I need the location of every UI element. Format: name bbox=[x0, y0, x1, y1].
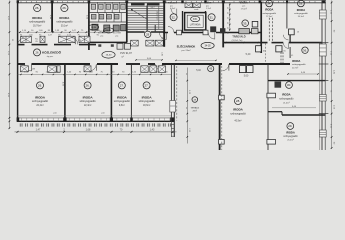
svg-text:1,06: 1,06 bbox=[78, 40, 82, 42]
door arc below wall near room 32 bbox=[159, 33, 166, 40]
dimension chain inside lower offices y=74 bbox=[18, 72, 171, 76]
svg-text:szőnyegpadló: szőnyegpadló bbox=[139, 99, 156, 103]
svg-text:wc: wc bbox=[100, 7, 102, 9]
svg-text:31.: 31. bbox=[210, 15, 214, 19]
svg-text:IRODA: IRODA bbox=[286, 130, 295, 134]
washbasin boxes below corridor wall mid bbox=[141, 66, 166, 73]
svg-text:pvc: pvc bbox=[101, 35, 104, 37]
corridor dim line over courtyard bbox=[175, 60, 216, 61]
wall: rooms divider stepped bbox=[268, 112, 325, 115]
svg-text:IRODA: IRODA bbox=[32, 16, 43, 20]
svg-text:29.: 29. bbox=[288, 124, 292, 128]
svg-text:kéz: kéz bbox=[108, 17, 111, 19]
svg-text:60: 60 bbox=[226, 32, 228, 34]
svg-text:30,76m²: 30,76m² bbox=[33, 24, 42, 27]
svg-text:27.: 27. bbox=[120, 83, 124, 87]
corridor oval 34-35 bbox=[201, 42, 214, 48]
svg-text:26.: 26. bbox=[35, 6, 39, 10]
svg-text:34-35: 34-35 bbox=[205, 45, 212, 47]
wall: lower offices divider x=111 bbox=[110, 65, 112, 119]
floor level note mid office bbox=[101, 112, 105, 114]
svg-text:IRODA: IRODA bbox=[265, 8, 273, 12]
svg-text:28m²: 28m² bbox=[193, 109, 198, 112]
courtyard terrace label bbox=[190, 97, 199, 113]
door swing into office below (x=25..32) bbox=[25, 64, 32, 71]
wall piers along top exterior bbox=[17, 0, 326, 3]
floor level note left office bbox=[53, 112, 57, 114]
svg-text:pvc 24m²: pvc 24m² bbox=[182, 49, 191, 52]
door swing corridor north gap bbox=[18, 38, 25, 45]
dark fixtures bottom of office 35 bbox=[239, 29, 258, 34]
corridor room circle+name KOZLEKEDO bbox=[34, 49, 62, 58]
door swing into right wing room bbox=[223, 64, 229, 70]
svg-text:9,8m²: 9,8m² bbox=[119, 104, 125, 107]
wall: top exterior with window sills bbox=[17, 1, 326, 3]
vertical dim inside office 26a bbox=[86, 15, 88, 20]
svg-text:40,9m²: 40,9m² bbox=[234, 120, 241, 123]
fixtures hanging below corridor south wall bbox=[20, 66, 91, 73]
svg-text:30,1m²: 30,1m² bbox=[61, 24, 68, 27]
wall: stair east bbox=[163, 2, 165, 47]
svg-text:szőnyegpadló: szőnyegpadló bbox=[279, 98, 294, 100]
right vertical dimension chain bbox=[329, 1, 334, 149]
svg-text:szőnyegpadló: szőnyegpadló bbox=[80, 99, 97, 103]
svg-text:5,40: 5,40 bbox=[246, 53, 251, 56]
svg-text:szőnyegpadló: szőnyegpadló bbox=[292, 64, 306, 66]
office 34 label bbox=[262, 0, 276, 18]
svg-text:26-30: 26-30 bbox=[91, 27, 97, 29]
svg-text:60: 60 bbox=[226, 12, 228, 14]
svg-text:5,40: 5,40 bbox=[196, 70, 201, 72]
svg-text:KÖZLEKEDŐ: KÖZLEKEDŐ bbox=[42, 49, 62, 54]
svg-text:65: 65 bbox=[263, 50, 265, 52]
svg-text:szőnyegpadló: szőnyegpadló bbox=[283, 136, 298, 138]
svg-text:26-30: 26-30 bbox=[106, 54, 112, 56]
svg-text:IRODA: IRODA bbox=[35, 95, 46, 99]
stair side dim texts bbox=[161, 37, 163, 56]
office 26a label bbox=[56, 4, 73, 27]
wall: east of sanitary block / stair west bbox=[126, 2, 128, 43]
corridor fixtures below sanitary block bbox=[98, 40, 163, 49]
cabinet/glazing boxes above corridor north wall bbox=[21, 36, 90, 44]
wall: x=223 service shaft west bbox=[222, 2, 224, 47]
office 35 label bbox=[240, 2, 248, 11]
sanitary block WC cells and fixtures bbox=[88, 2, 127, 33]
door swing into left wing room (x=155..162) bbox=[156, 64, 163, 71]
wall: lower offices divider x=131 bbox=[130, 65, 132, 119]
svg-text:IRODA: IRODA bbox=[117, 95, 128, 99]
furniture boxes top of lift lobby bbox=[185, 3, 200, 11]
courtyard door circle 43 bbox=[208, 66, 214, 72]
svg-text:27.: 27. bbox=[145, 83, 149, 87]
svg-text:20,7m²: 20,7m² bbox=[292, 66, 299, 69]
svg-text:21,4m²: 21,4m² bbox=[283, 101, 290, 104]
svg-text:36.: 36. bbox=[303, 48, 307, 52]
office 26 label bbox=[29, 4, 46, 27]
wall: corridor north (right section) bbox=[163, 32, 262, 34]
svg-text:pvc: pvc bbox=[170, 5, 173, 7]
room RAKT label bbox=[205, 2, 212, 11]
left vertical dimension chain bbox=[7, 1, 13, 130]
svg-text:30,1m²: 30,1m² bbox=[298, 15, 305, 18]
dashed partition x=281 bbox=[281, 52, 283, 63]
dim 5.40 room 30 bbox=[272, 106, 316, 108]
svg-text:90: 90 bbox=[161, 37, 163, 39]
corridor dim 5.60 mid bbox=[135, 58, 162, 61]
lower office 27. at x=121.8 bbox=[114, 82, 131, 107]
svg-text:1,85: 1,85 bbox=[161, 52, 163, 56]
svg-text:wc: wc bbox=[107, 7, 109, 9]
wall: x=261 office 35 east bbox=[261, 2, 265, 63]
lower office 27. at x=146.6 bbox=[139, 82, 156, 107]
svg-text:m²: m² bbox=[121, 56, 124, 59]
dashed line east of left wing bbox=[176, 66, 178, 121]
svg-text:21,4m²: 21,4m² bbox=[287, 138, 294, 141]
wall: between offices 26/26a bbox=[51, 2, 53, 32]
KL door boxes into room 28 bbox=[239, 66, 253, 78]
office 35 circle bbox=[242, 20, 249, 27]
svg-text:30.: 30. bbox=[287, 83, 291, 87]
svg-text:22,4m²: 22,4m² bbox=[36, 104, 43, 107]
svg-text:szekr.: szekr. bbox=[194, 8, 199, 11]
KL box office 35 bbox=[252, 21, 258, 31]
svg-text:18,6m²: 18,6m² bbox=[143, 104, 150, 107]
wall junction ticks right exterior bbox=[319, 43, 329, 114]
wall: corridor south spanning building bbox=[17, 63, 290, 65]
door swing into office below (x=90..97) bbox=[90, 64, 97, 71]
wall: left-wing south exterior with windows bbox=[17, 117, 175, 121]
jamb box on wall x=176.5 bbox=[177, 30, 182, 35]
svg-text:szőnyegpadló: szőnyegpadló bbox=[262, 13, 276, 15]
wall: west of sanitary block bbox=[88, 2, 90, 50]
room 30 label bbox=[279, 82, 294, 105]
corridor dim 5.40 right bbox=[246, 53, 251, 56]
KL door box office 33 bbox=[283, 29, 299, 40]
building interior fill bbox=[18, 3, 326, 150]
door arc below wall near room 31 bbox=[208, 33, 215, 40]
svg-text:60: 60 bbox=[226, 7, 228, 9]
vertical dimension strip x=230 bbox=[226, 2, 230, 34]
wall: right-wing west x=219.5 bbox=[219, 65, 221, 151]
courtyard dim 5,40 bbox=[196, 70, 201, 72]
window dimension tick pairs under south wall bbox=[20, 123, 171, 126]
dim 5.40 office 36 bbox=[287, 72, 318, 75]
svg-text:5,60: 5,60 bbox=[244, 76, 249, 78]
svg-text:32.: 32. bbox=[172, 15, 176, 19]
room 29 label bbox=[283, 123, 298, 142]
staircase with steps, landing, walk line bbox=[127, 3, 164, 32]
KL boxes right corridor bbox=[256, 46, 286, 53]
windows on right exterior wall bbox=[319, 10, 326, 137]
svg-text:szőnyegpadló: szőnyegpadló bbox=[294, 13, 308, 15]
second dimension number row y=35 bbox=[20, 34, 100, 36]
svg-text:IRODA: IRODA bbox=[240, 2, 248, 5]
svg-text:2x17: 2x17 bbox=[150, 7, 154, 9]
svg-text:34.: 34. bbox=[267, 1, 271, 5]
room 32 circle bbox=[170, 14, 177, 21]
door arc into office 36 bbox=[284, 43, 289, 48]
door swing corridor north gap 2 bbox=[71, 38, 78, 45]
svg-text:35.: 35. bbox=[243, 21, 247, 25]
lower office 26. at x=87.6 bbox=[80, 82, 97, 107]
svg-text:wc: wc bbox=[122, 7, 124, 9]
dashed movable partition office 34 bbox=[269, 18, 272, 42]
room 28 label bbox=[230, 98, 246, 123]
paper background bbox=[0, 0, 345, 150]
svg-text:29: 29 bbox=[146, 32, 150, 36]
lift shaft LIFTAKNA bbox=[185, 13, 206, 30]
wall: left-wing east side + stair stub below bbox=[170, 65, 176, 138]
svg-text:IRODA: IRODA bbox=[142, 95, 153, 99]
svg-text:1,7m²: 1,7m² bbox=[206, 7, 211, 10]
wall: south of rooms 34/33 and meeting room y=42.6 bbox=[223, 35, 321, 44]
svg-text:TERASZ: TERASZ bbox=[190, 107, 199, 110]
door arc below room 32 bbox=[168, 27, 174, 33]
wall: lift lobby east bbox=[205, 11, 207, 33]
room 31 circle bbox=[208, 14, 215, 21]
dimension chain under top offices bbox=[18, 30, 110, 33]
wall: corridor north (left section) bbox=[17, 44, 96, 46]
svg-text:ELŐTÉR: ELŐTÉR bbox=[113, 32, 122, 35]
svg-text:(24,3x1,7m): (24,3x1,7m) bbox=[232, 40, 243, 42]
svg-text:60: 60 bbox=[226, 27, 228, 29]
svg-text:26.: 26. bbox=[86, 83, 90, 87]
svg-text:1,43: 1,43 bbox=[150, 129, 155, 132]
svg-text:60: 60 bbox=[226, 17, 228, 19]
svg-text:60: 60 bbox=[226, 22, 228, 24]
svg-text:IRODA: IRODA bbox=[292, 59, 300, 63]
svg-text:IRODA: IRODA bbox=[297, 8, 305, 12]
dark door block room 30 west bbox=[275, 82, 282, 88]
courtyard vertical dimension line bbox=[185, 68, 190, 144]
svg-text:TÁRGYALÓ: TÁRGYALÓ bbox=[232, 35, 245, 38]
svg-text:26.: 26. bbox=[62, 6, 66, 10]
svg-text:22,4m²: 22,4m² bbox=[84, 104, 91, 107]
svg-text:wc: wc bbox=[92, 7, 94, 9]
svg-text:XXI.: XXI. bbox=[193, 17, 198, 21]
svg-text:17,5m²: 17,5m² bbox=[241, 8, 248, 11]
svg-text:26.: 26. bbox=[38, 83, 42, 87]
svg-text:szőnyegpadló: szőnyegpadló bbox=[114, 99, 131, 103]
wall: lower offices divider x=65 bbox=[64, 65, 66, 119]
wall: right-wing interior x=268 bbox=[267, 65, 269, 151]
jamb box on wall x=203 bbox=[203, 30, 208, 35]
svg-text:1,68: 1,68 bbox=[86, 129, 91, 132]
svg-text:IRODA: IRODA bbox=[233, 108, 244, 112]
svg-text:szőnyegpadló: szőnyegpadló bbox=[56, 20, 73, 24]
wall: left exterior bbox=[17, 1, 19, 122]
office 36 label bbox=[292, 47, 308, 69]
meeting room TARGYALO bbox=[220, 28, 259, 43]
svg-text:TÁLALÓ: TÁLALÓ bbox=[168, 2, 177, 5]
svg-text:kéz: kéz bbox=[115, 17, 118, 19]
lower office 26. at x=40.0 bbox=[32, 82, 49, 107]
svg-text:IRODA: IRODA bbox=[59, 16, 70, 20]
svg-text:LIFTAKNA: LIFTAKNA bbox=[190, 24, 201, 27]
door arc T.LAKAS bbox=[171, 9, 177, 15]
wall: right exterior double line bbox=[320, 1, 325, 151]
svg-text:18x17/29: 18x17/29 bbox=[156, 10, 158, 20]
svg-text:kéz: kéz bbox=[93, 17, 96, 19]
svg-text:szőnyegpadló: szőnyegpadló bbox=[29, 20, 46, 24]
office 36 west wall bbox=[289, 47, 291, 58]
svg-text:pvc: pvc bbox=[206, 5, 209, 7]
vertical dim lower office bbox=[62, 82, 64, 87]
svg-text:IRODA: IRODA bbox=[282, 93, 291, 97]
pilasters on right wing walls bbox=[219, 93, 276, 144]
dim 1.41 office 36 bbox=[290, 55, 295, 57]
svg-text:RAKT.: RAKT. bbox=[205, 2, 212, 5]
stair flight number circle bbox=[145, 31, 151, 37]
dark door block right of lift bbox=[210, 26, 216, 32]
svg-text:27,9m²: 27,9m² bbox=[266, 15, 273, 18]
svg-text:kéz: kéz bbox=[100, 17, 103, 19]
svg-text:28.: 28. bbox=[236, 99, 240, 103]
lobby label ELOCSARNOK bbox=[177, 44, 196, 53]
svg-text:ép pvc: ép pvc bbox=[47, 56, 54, 58]
bottom dimension chain bbox=[15, 129, 177, 133]
sanitary block lobby bbox=[89, 32, 127, 43]
svg-text:33.: 33. bbox=[299, 1, 303, 5]
wall: lift lobby west bbox=[182, 11, 184, 33]
svg-text:wc: wc bbox=[115, 7, 117, 9]
svg-text:szőnyegpadló: szőnyegpadló bbox=[230, 112, 246, 115]
room T.LAKAS label bbox=[168, 2, 177, 11]
svg-text:pvc: pvc bbox=[116, 35, 119, 37]
line: inner face of south wall bbox=[17, 115, 171, 117]
svg-text:65: 65 bbox=[284, 50, 286, 52]
svg-text:IRODA: IRODA bbox=[83, 95, 94, 99]
svg-text:szőnyegpadló: szőnyegpadló bbox=[32, 99, 49, 103]
svg-text:13: 13 bbox=[297, 32, 299, 34]
svg-text:pvc: pvc bbox=[242, 6, 245, 8]
wall: rooms divider y=80.5 bbox=[268, 80, 325, 82]
wall: between offices 34/33 bbox=[286, 2, 288, 29]
dashed line east of right-wing west wall bbox=[221, 66, 223, 150]
corridor area label oval 26-30 bbox=[102, 51, 133, 58]
vertical dim inside office 26 bbox=[49, 15, 51, 20]
svg-text:1,47: 1,47 bbox=[36, 129, 41, 132]
svg-text:PVC 91,97: PVC 91,97 bbox=[120, 52, 132, 55]
office 33 label bbox=[294, 0, 308, 18]
